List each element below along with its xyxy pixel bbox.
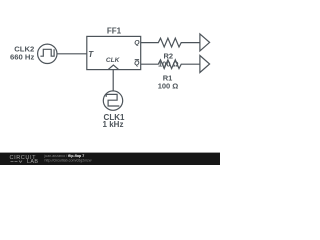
svg-text:100 Ω: 100 Ω: [158, 59, 179, 68]
svg-text:Q: Q: [134, 40, 140, 47]
svg-text:http://circuitlab.com/c6g2nizw: http://circuitlab.com/c6g2nizw: [45, 158, 92, 162]
svg-text:LAB: LAB: [27, 159, 38, 165]
svg-text:1 kHz: 1 kHz: [103, 120, 124, 129]
svg-text:100 Ω: 100 Ω: [158, 82, 179, 91]
svg-text:FF1: FF1: [107, 26, 122, 35]
svg-text:660 Hz: 660 Hz: [10, 53, 35, 62]
svg-text:CLK: CLK: [106, 57, 121, 64]
svg-text:Q: Q: [134, 60, 140, 67]
